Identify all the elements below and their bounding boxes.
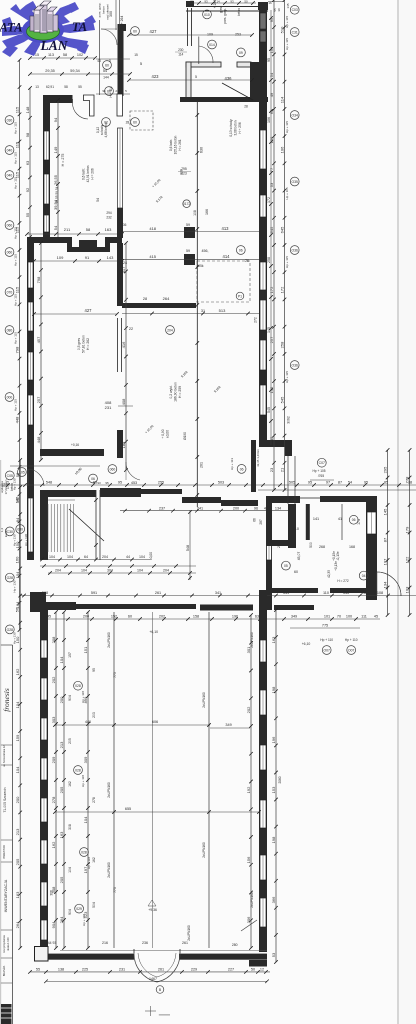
svg-text:2060: 2060 (278, 776, 282, 783)
svg-text:C31: C31 (292, 30, 298, 34)
svg-text:O28: O28 (7, 576, 14, 580)
svg-text:C03: C03 (292, 8, 298, 12)
svg-text:fronesis: fronesis (2, 688, 11, 712)
svg-text:162: 162 (51, 841, 56, 848)
svg-text:548: 548 (46, 481, 52, 485)
svg-text:Hp + 118: Hp + 118 (81, 775, 85, 787)
svg-text:423: 423 (152, 74, 160, 79)
svg-text:2xUPN160: 2xUPN160 (107, 782, 111, 798)
svg-text:77: 77 (269, 167, 274, 172)
svg-text:108: 108 (377, 591, 383, 595)
svg-text:306: 306 (246, 916, 251, 923)
svg-text:028: 028 (81, 850, 87, 854)
svg-text:95: 95 (93, 481, 97, 485)
svg-text:141: 141 (313, 517, 319, 521)
svg-text:3062: 3062 (287, 416, 291, 424)
svg-text:158: 158 (193, 615, 199, 619)
svg-text:45,07: 45,07 (297, 552, 301, 561)
svg-text:02: 02 (104, 120, 108, 124)
svg-text:84: 84 (15, 517, 20, 522)
svg-text:414: 414 (223, 254, 231, 259)
svg-text:60: 60 (133, 29, 137, 33)
svg-text:162: 162 (92, 857, 96, 863)
svg-text:232: 232 (106, 216, 112, 220)
svg-text:+9,36: +9,36 (148, 908, 157, 912)
svg-text:104: 104 (59, 656, 64, 663)
svg-text:278: 278 (92, 797, 96, 803)
svg-text:Hp + 115: Hp + 115 (285, 187, 289, 199)
svg-text:102: 102 (117, 53, 123, 57)
svg-text:138: 138 (58, 968, 64, 972)
svg-text:26: 26 (245, 259, 249, 263)
svg-text:60: 60 (294, 570, 298, 574)
svg-text:63: 63 (255, 615, 259, 619)
svg-text:41: 41 (338, 517, 342, 521)
svg-text:115: 115 (14, 286, 19, 293)
svg-text:301: 301 (246, 646, 251, 653)
svg-text:630: 630 (200, 147, 204, 153)
svg-text:H = 206: H = 206 (91, 168, 95, 179)
svg-text:21: 21 (279, 467, 284, 472)
svg-text:66: 66 (253, 518, 257, 522)
svg-text:kuwert: kuwert (4, 529, 8, 537)
svg-text:198: 198 (271, 836, 276, 843)
svg-text:227: 227 (228, 968, 234, 972)
svg-text:060: 060 (7, 250, 13, 254)
svg-text:179: 179 (404, 526, 409, 533)
svg-text:904: 904 (68, 695, 72, 701)
svg-text:172: 172 (269, 286, 274, 293)
svg-text:427: 427 (85, 308, 93, 313)
svg-text:156: 156 (246, 856, 251, 863)
svg-text:Hp + 130: Hp + 130 (13, 534, 17, 546)
svg-text:O07: O07 (348, 648, 355, 652)
svg-text:24: 24 (123, 261, 127, 265)
svg-text:166: 166 (205, 209, 209, 215)
svg-text:268: 268 (319, 545, 325, 549)
svg-text:Hp + 115: Hp + 115 (14, 254, 18, 266)
svg-text:104: 104 (83, 816, 88, 823)
svg-text:14: 14 (216, 0, 220, 4)
svg-text:500: 500 (309, 542, 313, 548)
svg-text:204: 204 (55, 569, 61, 573)
svg-text:71-005 Szczecin: 71-005 Szczecin (3, 787, 7, 812)
svg-text:±0,00: ±0,00 (149, 552, 153, 560)
svg-text:205: 205 (15, 858, 20, 865)
svg-text:272: 272 (254, 317, 258, 323)
svg-text:H = 275: H = 275 (61, 154, 65, 167)
svg-text:341: 341 (215, 591, 221, 595)
svg-text:145: 145 (267, 327, 271, 333)
svg-text:O28: O28 (7, 628, 14, 632)
svg-text:100: 100 (346, 615, 352, 619)
svg-text:56: 56 (15, 472, 20, 477)
svg-text:308: 308 (180, 169, 184, 175)
svg-text:237: 237 (159, 506, 165, 510)
svg-text:59: 59 (186, 223, 190, 227)
svg-text:93: 93 (230, 0, 234, 4)
svg-text:200: 200 (15, 796, 20, 803)
svg-text:57,81 beton: 57,81 beton (82, 335, 86, 353)
svg-text:59,34: 59,34 (70, 69, 80, 73)
svg-text:H + 256: H + 256 (238, 122, 242, 133)
svg-text:108: 108 (193, 210, 197, 216)
svg-text:53: 53 (269, 182, 274, 187)
svg-text:INWESTOR: INWESTOR (2, 845, 6, 859)
svg-text:060: 060 (110, 467, 116, 471)
svg-text:798: 798 (14, 346, 19, 353)
svg-text:H = 259: H = 259 (178, 386, 182, 398)
svg-text:4,68 beton: 4,68 beton (104, 122, 108, 137)
svg-text:107: 107 (382, 558, 387, 565)
svg-text:113: 113 (48, 53, 54, 57)
svg-text:162: 162 (68, 781, 72, 787)
svg-text:101: 101 (324, 615, 330, 619)
svg-text:287: 287 (259, 519, 263, 525)
svg-text:203: 203 (92, 712, 96, 718)
svg-text:Hp + 118: Hp + 118 (81, 691, 85, 703)
svg-text:43: 43 (97, 59, 101, 63)
svg-text:Ø190: Ø190 (183, 432, 187, 440)
svg-text:122: 122 (404, 556, 409, 563)
svg-text:258: 258 (279, 341, 284, 348)
svg-text:54: 54 (96, 198, 100, 202)
svg-text:O35: O35 (291, 180, 298, 184)
svg-text:63: 63 (25, 160, 30, 165)
svg-text:09: 09 (239, 51, 243, 55)
svg-text:95: 95 (118, 481, 122, 485)
svg-text:104: 104 (68, 867, 72, 873)
svg-text:261: 261 (158, 968, 164, 972)
svg-text:90: 90 (261, 1, 265, 5)
svg-text:104: 104 (139, 555, 145, 559)
svg-text:/765: /765 (318, 474, 324, 478)
svg-text:-0,13e: -0,13e (336, 551, 340, 560)
svg-text:H = 272: H = 272 (337, 579, 348, 583)
svg-text:295: 295 (382, 466, 387, 473)
svg-text:216: 216 (102, 941, 108, 945)
svg-text:05: 05 (284, 564, 288, 568)
svg-text:145: 145 (286, 3, 290, 8)
svg-text:55: 55 (25, 212, 30, 217)
svg-text:50: 50 (244, 0, 248, 4)
svg-text:513: 513 (219, 308, 226, 313)
svg-text:Hp + 115: Hp + 115 (285, 38, 289, 50)
svg-text:17,63 beton: 17,63 beton (4, 479, 8, 494)
svg-text:201: 201 (277, 542, 281, 548)
svg-text:Hp + 110: Hp + 110 (345, 638, 358, 642)
svg-text:345: 345 (343, 591, 349, 595)
svg-text:104: 104 (137, 569, 143, 573)
svg-text:213: 213 (59, 741, 64, 748)
svg-text:134: 134 (382, 581, 387, 588)
svg-text:418: 418 (149, 226, 156, 231)
svg-text:413: 413 (222, 226, 230, 231)
svg-text:pom. gosp.: pom. gosp. (223, 8, 227, 24)
svg-text:58: 58 (64, 85, 68, 89)
svg-text:446: 446 (85, 720, 91, 724)
svg-text:Hp + 130: Hp + 130 (13, 632, 17, 644)
svg-text:366: 366 (271, 896, 276, 903)
svg-text:92: 92 (25, 187, 30, 192)
svg-text:54: 54 (269, 72, 274, 77)
svg-text:148: 148 (25, 106, 30, 113)
svg-text:115: 115 (14, 106, 19, 113)
svg-text:606: 606 (152, 720, 158, 724)
svg-text:62,91: 62,91 (46, 85, 54, 89)
svg-text:000: 000 (7, 395, 13, 399)
svg-text:54: 54 (348, 481, 352, 485)
svg-text:Hp + 115: Hp + 115 (14, 177, 18, 189)
svg-text:253: 253 (235, 32, 241, 36)
svg-text:skala 1:100: skala 1:100 (6, 937, 10, 951)
svg-text:192: 192 (246, 786, 251, 793)
svg-text:93: 93 (204, 0, 208, 4)
svg-text:211: 211 (64, 227, 71, 232)
svg-text:44 93: 44 93 (48, 941, 57, 945)
svg-text:95: 95 (92, 668, 96, 672)
svg-text:55: 55 (78, 85, 82, 89)
svg-text:109: 109 (57, 255, 64, 260)
svg-text:0,6 lastr.: 0,6 lastr. (82, 168, 86, 180)
svg-text:163: 163 (105, 227, 112, 232)
svg-text:60: 60 (133, 120, 137, 124)
svg-text:2xUPN160: 2xUPN160 (250, 892, 254, 908)
svg-text:44: 44 (126, 555, 130, 559)
svg-text:010: 010 (204, 13, 210, 17)
svg-text:105,16 beton: 105,16 beton (174, 135, 178, 154)
svg-text:P1: P1 (238, 294, 242, 298)
svg-text:95: 95 (308, 481, 312, 485)
svg-text:87: 87 (382, 537, 387, 542)
svg-text:014: 014 (209, 43, 215, 47)
svg-text:2xUPN160: 2xUPN160 (250, 632, 254, 648)
svg-text:95: 95 (105, 481, 109, 485)
svg-text:Hp + 115: Hp + 115 (14, 227, 18, 239)
svg-text:98: 98 (25, 132, 30, 137)
svg-text:134: 134 (275, 506, 281, 510)
svg-text:111: 111 (361, 615, 367, 619)
svg-text:93: 93 (97, 481, 101, 485)
svg-text:42,91 beton: 42,91 beton (86, 165, 90, 182)
svg-text:236: 236 (142, 941, 148, 945)
svg-text:H = 262: H = 262 (86, 338, 90, 350)
svg-text:0,6 lastr.: 0,6 lastr. (169, 139, 173, 151)
svg-text:C07: C07 (319, 461, 325, 465)
svg-text:904: 904 (51, 921, 56, 928)
svg-text:264: 264 (163, 296, 170, 301)
svg-text:42,35 1,464m: 42,35 1,464m (256, 449, 260, 467)
svg-text:21: 21 (118, 76, 122, 80)
svg-text:Hp + 115: Hp + 115 (285, 256, 289, 268)
svg-text:448: 448 (36, 436, 41, 443)
svg-text:205: 205 (59, 876, 64, 883)
svg-text:029: 029 (76, 907, 82, 911)
svg-text:50: 50 (190, 0, 194, 4)
svg-text:53: 53 (271, 952, 276, 957)
svg-text:304: 304 (107, 569, 113, 573)
svg-text:5: 5 (109, 59, 111, 63)
svg-text:775: 775 (322, 624, 328, 628)
svg-text:303: 303 (51, 716, 56, 723)
svg-text:645: 645 (269, 226, 274, 233)
svg-text:2xUPN160: 2xUPN160 (202, 842, 206, 858)
svg-text:06: 06 (352, 518, 356, 522)
svg-text:231: 231 (105, 405, 112, 410)
svg-text:15: 15 (35, 53, 39, 57)
svg-text:300: 300 (109, 11, 113, 17)
svg-text:Hp + 130: Hp + 130 (13, 478, 17, 490)
svg-text:15: 15 (134, 53, 138, 57)
svg-text:208: 208 (51, 636, 56, 643)
svg-text:55: 55 (36, 968, 40, 972)
svg-text:204: 204 (163, 569, 169, 573)
svg-text:257: 257 (36, 396, 41, 403)
svg-text:23: 23 (269, 467, 274, 472)
svg-text:70: 70 (337, 615, 341, 619)
svg-text:427: 427 (150, 29, 158, 34)
svg-text:Hp + 115: Hp + 115 (285, 371, 289, 383)
svg-text:+ 0,90: + 0,90 (161, 429, 165, 438)
svg-text:204: 204 (102, 555, 108, 559)
svg-text:261: 261 (200, 462, 204, 468)
svg-text:545: 545 (279, 396, 284, 403)
svg-text:H + 114: H + 114 (109, 86, 113, 97)
svg-text:13: 13 (35, 85, 39, 89)
svg-text:225: 225 (82, 968, 88, 972)
svg-text:97: 97 (326, 481, 330, 485)
svg-text:143: 143 (107, 255, 114, 260)
svg-text:ul. Szczecińska 12: ul. Szczecińska 12 (2, 745, 6, 767)
svg-text:172: 172 (279, 286, 284, 293)
svg-text:110: 110 (323, 591, 329, 595)
svg-text:Hp + 115: Hp + 115 (285, 15, 289, 27)
svg-text:111: 111 (361, 591, 367, 595)
svg-text:103: 103 (404, 586, 409, 593)
svg-text:36: 36 (123, 223, 127, 227)
svg-text:2xUPN160: 2xUPN160 (187, 925, 191, 941)
svg-text:349: 349 (291, 615, 297, 619)
svg-text:160: 160 (14, 556, 19, 563)
svg-text:60: 60 (105, 63, 109, 67)
svg-text:TA: TA (72, 20, 87, 34)
svg-text:3,08 beton: 3,08 beton (234, 120, 238, 135)
svg-text:257: 257 (269, 336, 274, 343)
svg-text:030: 030 (7, 118, 13, 122)
svg-text:54: 54 (53, 225, 58, 230)
svg-text:87: 87 (338, 481, 342, 485)
svg-text:Hp + 130: Hp + 130 (13, 580, 17, 592)
svg-text:28: 28 (126, 121, 130, 125)
svg-text:06: 06 (239, 248, 243, 252)
svg-text:060: 060 (7, 223, 13, 227)
svg-text:Hp + 105: Hp + 105 (312, 469, 325, 473)
svg-text:+ 264: + 264 (120, 16, 124, 25)
svg-text:255: 255 (158, 481, 164, 485)
svg-text:21: 21 (115, 89, 119, 93)
svg-text:26,55 59,54: 26,55 59,54 (55, 186, 59, 203)
svg-text:261: 261 (182, 941, 188, 945)
svg-text:30: 30 (277, 8, 281, 12)
svg-text:168: 168 (349, 545, 355, 549)
svg-text:Hp + 113: Hp + 113 (230, 458, 234, 470)
svg-text:904: 904 (68, 909, 72, 915)
svg-text:49: 49 (269, 92, 274, 97)
svg-text:O36: O36 (291, 363, 298, 367)
svg-text:96: 96 (254, 506, 258, 510)
svg-text:2xUPN160: 2xUPN160 (202, 692, 206, 708)
svg-text:545: 545 (267, 407, 271, 413)
svg-text:309: 309 (83, 756, 88, 763)
svg-text:204: 204 (167, 328, 173, 332)
svg-text:205: 205 (68, 738, 72, 744)
svg-text:408: 408 (121, 398, 126, 405)
svg-text:58: 58 (86, 227, 91, 232)
svg-text:Hp + 115: Hp + 115 (14, 152, 18, 164)
svg-text:294: 294 (106, 211, 112, 215)
svg-text:beton: beton (237, 8, 241, 16)
svg-text:114: 114 (279, 96, 284, 103)
svg-text:60: 60 (15, 497, 20, 502)
svg-text:186,90 beton: 186,90 beton (174, 382, 178, 402)
svg-text:773: 773 (113, 887, 117, 893)
svg-text:213: 213 (15, 828, 20, 835)
svg-text:INWENTARYZACJA: INWENTARYZACJA (4, 879, 8, 912)
svg-text:Hp + 118: Hp + 118 (82, 914, 86, 926)
svg-text:104: 104 (49, 555, 55, 559)
svg-text:42,35: 42,35 (327, 570, 331, 578)
svg-text:164: 164 (15, 601, 20, 608)
svg-text:209: 209 (51, 756, 56, 763)
svg-text:349: 349 (225, 723, 231, 727)
svg-text:110: 110 (293, 527, 299, 531)
svg-text:230: 230 (178, 48, 184, 52)
svg-text:453: 453 (131, 481, 137, 485)
svg-text:104: 104 (67, 555, 73, 559)
svg-text:1467: 1467 (149, 977, 157, 981)
svg-text:040: 040 (7, 148, 13, 152)
svg-text:778: 778 (404, 476, 409, 483)
svg-text:91: 91 (85, 255, 90, 260)
svg-text:58: 58 (63, 53, 67, 57)
svg-text:95: 95 (267, 58, 271, 62)
svg-text:102: 102 (77, 53, 83, 57)
svg-text:H = 261: H = 261 (178, 139, 182, 150)
svg-text:2xUPN160: 2xUPN160 (107, 632, 111, 648)
svg-text:12: 12 (260, 968, 264, 972)
svg-text:0,13 schody: 0,13 schody (229, 119, 233, 137)
svg-text:+0,13e: +0,13e (334, 561, 338, 571)
svg-text:040: 040 (7, 173, 13, 177)
svg-text:162: 162 (15, 668, 20, 675)
svg-text:448: 448 (14, 416, 19, 423)
svg-text:308: 308 (50, 890, 54, 896)
svg-text:415: 415 (149, 254, 156, 259)
svg-text:202: 202 (246, 706, 251, 713)
svg-text:655: 655 (125, 807, 131, 811)
svg-text:153: 153 (271, 786, 276, 793)
svg-text:145: 145 (382, 508, 387, 515)
svg-text:28: 28 (143, 297, 147, 301)
svg-text:54: 54 (103, 69, 107, 73)
svg-text:2xUPN160: 2xUPN160 (107, 862, 111, 878)
svg-text:159: 159 (15, 734, 20, 741)
svg-text:200: 200 (233, 506, 239, 510)
svg-text:0,2 wykł.: 0,2 wykł. (169, 385, 173, 398)
svg-text:258: 258 (267, 257, 271, 263)
svg-text:64: 64 (84, 555, 88, 559)
svg-text:Hp + 115: Hp + 115 (14, 332, 18, 344)
